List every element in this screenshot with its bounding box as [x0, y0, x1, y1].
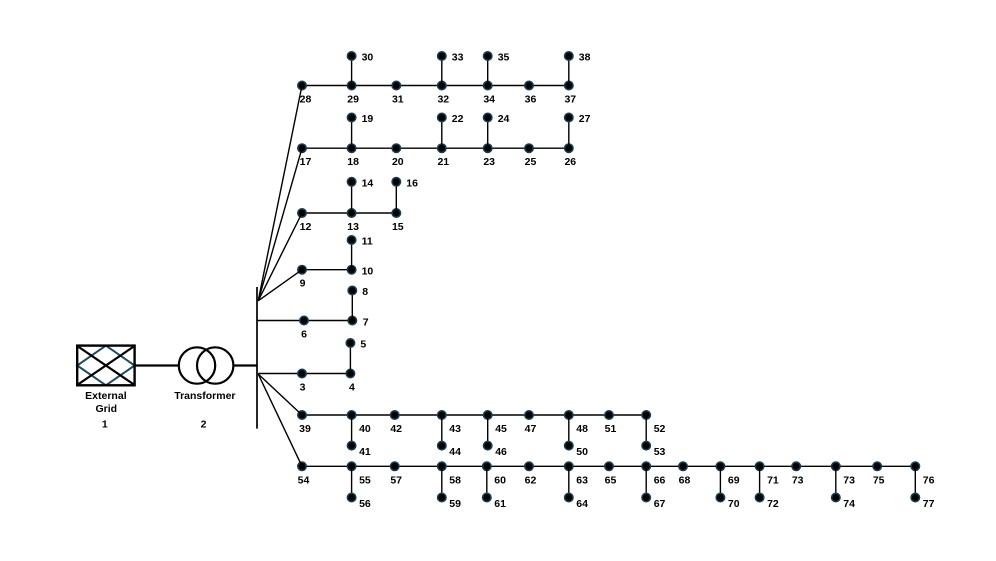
svg-text:22: 22	[452, 113, 464, 125]
svg-text:Transformer: Transformer	[174, 390, 235, 402]
svg-text:11: 11	[362, 236, 373, 248]
svg-text:23: 23	[483, 156, 495, 168]
svg-text:15: 15	[392, 221, 404, 233]
svg-text:31: 31	[392, 94, 404, 106]
svg-text:64: 64	[576, 498, 588, 510]
svg-text:40: 40	[359, 423, 371, 435]
svg-text:62: 62	[525, 474, 537, 486]
svg-text:17: 17	[300, 156, 312, 168]
svg-text:28: 28	[300, 94, 312, 106]
svg-text:48: 48	[576, 423, 588, 435]
svg-text:45: 45	[495, 423, 507, 435]
svg-text:29: 29	[347, 94, 359, 106]
svg-text:47: 47	[525, 423, 537, 435]
svg-text:27: 27	[579, 113, 591, 125]
svg-text:36: 36	[525, 94, 537, 106]
svg-text:43: 43	[449, 423, 461, 435]
svg-text:50: 50	[576, 446, 588, 458]
svg-text:53: 53	[654, 446, 666, 458]
svg-text:55: 55	[359, 474, 371, 486]
svg-text:38: 38	[579, 52, 591, 64]
svg-text:2: 2	[201, 419, 207, 431]
svg-text:63: 63	[576, 474, 588, 486]
svg-text:77: 77	[923, 498, 935, 510]
svg-text:73: 73	[792, 474, 804, 486]
svg-text:14: 14	[362, 177, 374, 189]
svg-text:41: 41	[359, 446, 371, 458]
svg-text:65: 65	[605, 474, 617, 486]
svg-text:46: 46	[495, 446, 507, 458]
svg-text:Grid: Grid	[96, 403, 118, 415]
svg-text:60: 60	[494, 474, 506, 486]
svg-text:70: 70	[728, 498, 740, 510]
svg-text:16: 16	[406, 177, 418, 189]
svg-text:13: 13	[347, 221, 359, 233]
svg-text:57: 57	[390, 474, 402, 486]
svg-text:19: 19	[362, 113, 374, 125]
svg-text:59: 59	[449, 498, 461, 510]
svg-text:71: 71	[767, 474, 779, 486]
svg-text:8: 8	[362, 286, 368, 298]
svg-text:30: 30	[362, 52, 374, 64]
svg-text:44: 44	[449, 446, 461, 458]
svg-text:7: 7	[363, 317, 369, 329]
svg-text:68: 68	[679, 474, 691, 486]
svg-text:74: 74	[843, 498, 855, 510]
svg-text:67: 67	[654, 498, 666, 510]
svg-text:33: 33	[452, 52, 464, 64]
svg-text:35: 35	[498, 52, 510, 64]
svg-text:72: 72	[767, 498, 779, 510]
svg-text:61: 61	[494, 498, 506, 510]
svg-text:External: External	[85, 390, 127, 402]
svg-text:4: 4	[349, 382, 355, 394]
svg-text:58: 58	[449, 474, 461, 486]
svg-text:26: 26	[564, 156, 576, 168]
svg-text:42: 42	[390, 423, 402, 435]
svg-text:66: 66	[654, 474, 666, 486]
svg-text:18: 18	[347, 156, 359, 168]
svg-text:76: 76	[923, 474, 935, 486]
svg-text:73: 73	[843, 474, 855, 486]
svg-text:32: 32	[437, 94, 449, 106]
svg-text:21: 21	[437, 156, 449, 168]
svg-text:37: 37	[564, 94, 576, 106]
svg-text:10: 10	[362, 266, 374, 278]
svg-text:9: 9	[300, 278, 306, 290]
svg-text:34: 34	[483, 94, 495, 106]
svg-text:20: 20	[392, 156, 404, 168]
svg-text:12: 12	[300, 221, 312, 233]
svg-text:6: 6	[301, 329, 307, 341]
svg-text:75: 75	[873, 474, 885, 486]
svg-text:25: 25	[525, 156, 537, 168]
svg-text:5: 5	[360, 339, 366, 351]
svg-text:24: 24	[498, 113, 510, 125]
svg-text:1: 1	[102, 419, 108, 431]
svg-text:69: 69	[728, 474, 740, 486]
svg-text:56: 56	[359, 498, 371, 510]
svg-text:3: 3	[300, 382, 306, 394]
svg-text:39: 39	[299, 423, 311, 435]
svg-text:54: 54	[298, 474, 310, 486]
svg-text:51: 51	[605, 423, 617, 435]
svg-text:52: 52	[654, 423, 666, 435]
